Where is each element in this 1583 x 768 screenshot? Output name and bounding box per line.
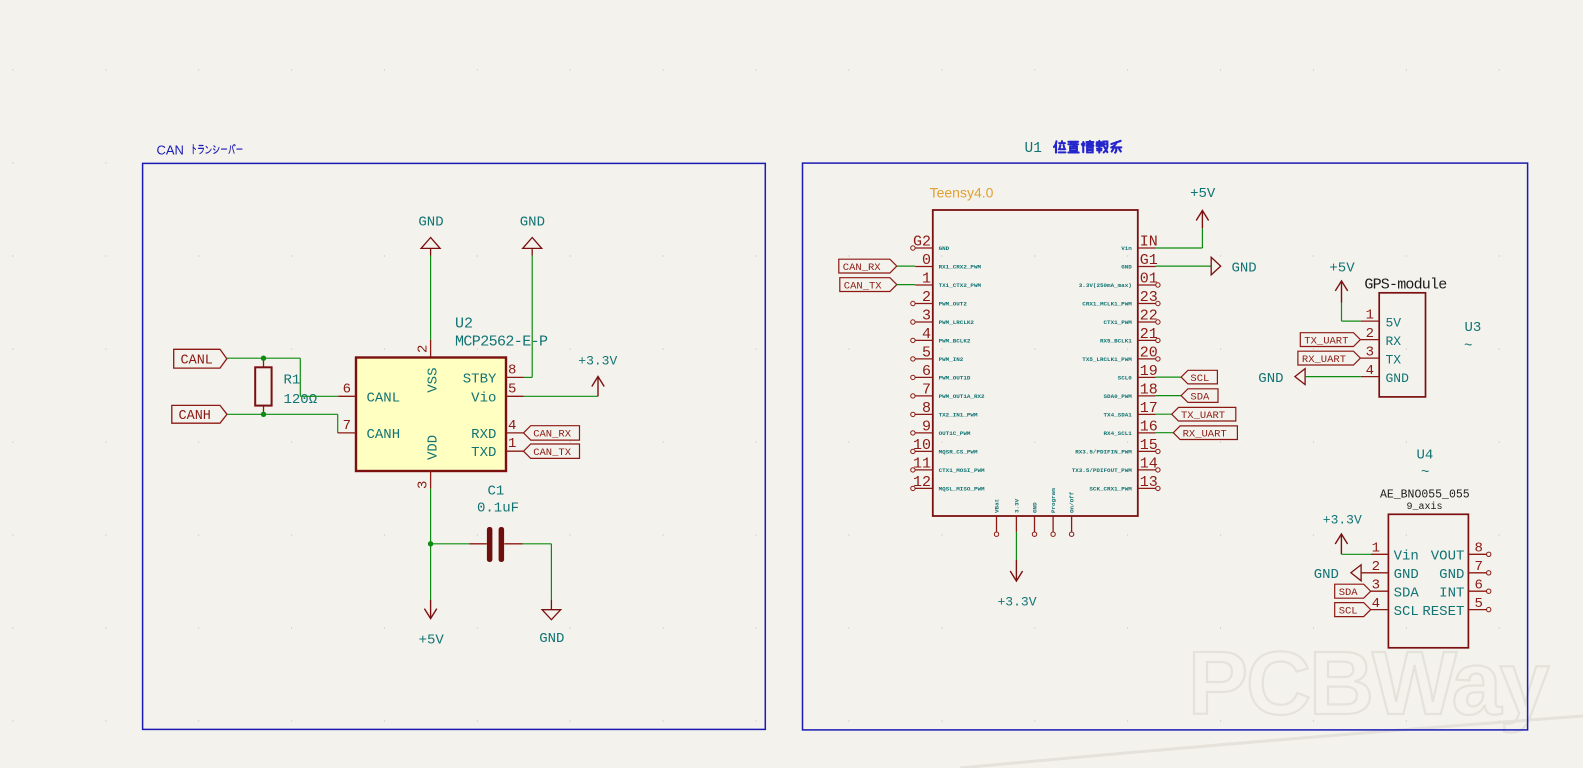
wire pin16 to RX_UART: [1156, 432, 1174, 434]
svg-text:SCL: SCL: [1394, 604, 1419, 620]
svg-text:TX_UART: TX_UART: [1181, 410, 1225, 422]
grid dots: [12, 70, 1499, 721]
sheet title CAN (katakana transceiver): [157, 143, 243, 158]
svg-text:7: 7: [343, 418, 351, 434]
svg-text:6: 6: [1475, 578, 1483, 594]
svg-text:TXD: TXD: [471, 445, 496, 461]
svg-text:TX3.5/PDIFOUT_PWM: TX3.5/PDIFOUT_PWM: [1072, 467, 1133, 474]
U1 left pin 10 MQSR_CS_PWM: [911, 437, 978, 456]
svg-text:Vin: Vin: [1121, 245, 1132, 252]
svg-text:15: 15: [1140, 437, 1158, 454]
U1 right pin 01 3.3V(250mA_max): [1079, 270, 1160, 289]
svg-text:U2: U2: [455, 316, 473, 333]
svg-text:SCL: SCL: [1339, 605, 1358, 617]
svg-text:3: 3: [1372, 578, 1380, 594]
U1 left pin 2 PWM_OUT2: [911, 289, 968, 308]
svg-text:SCL0: SCL0: [1118, 375, 1133, 382]
power +5V symbol (down arrow): [419, 600, 445, 648]
svg-text:+3.3V: +3.3V: [578, 353, 617, 368]
svg-text:TX4_SDA1: TX4_SDA1: [1104, 412, 1133, 419]
svg-text:18: 18: [1140, 381, 1158, 398]
svg-text:TX_UART: TX_UART: [1304, 335, 1348, 347]
svg-text:8: 8: [1475, 541, 1483, 557]
svg-text:CANL: CANL: [181, 354, 213, 369]
svg-text:CAN: CAN: [157, 143, 184, 158]
svg-text:STBY: STBY: [463, 372, 497, 388]
svg-text:On/Off: On/Off: [1069, 491, 1076, 513]
U1 left pin 4 PWM_BCLK2: [911, 326, 971, 345]
wire STBY to GND2: [524, 256, 533, 378]
U1 left pin 11 CTX1_MOSI_PWM: [911, 455, 985, 474]
svg-text:CANH: CANH: [179, 409, 211, 424]
svg-text:CRX1_MCLK1_PWM: CRX1_MCLK1_PWM: [1082, 301, 1132, 308]
svg-text:GND: GND: [1032, 502, 1039, 513]
svg-text:Program: Program: [1050, 488, 1057, 513]
U4 pin names: [1394, 549, 1465, 620]
svg-text:CTX1_MOSI_PWM: CTX1_MOSI_PWM: [939, 467, 985, 474]
svg-text:11: 11: [913, 455, 931, 472]
svg-text:2: 2: [1366, 326, 1374, 342]
resistor R1 120ohm: [255, 358, 317, 414]
svg-text:SDA: SDA: [1394, 585, 1420, 601]
pin 1 TXD stub: [506, 450, 524, 452]
svg-text:6: 6: [922, 363, 931, 380]
svg-text:AE_BNO055_055: AE_BNO055_055: [1380, 489, 1470, 502]
svg-text:1: 1: [1366, 307, 1374, 323]
svg-text:+3.3V: +3.3V: [1323, 512, 1362, 527]
svg-text:SDA0_PWM: SDA0_PWM: [1104, 393, 1133, 400]
svg-text:2: 2: [1372, 559, 1380, 575]
svg-text:7: 7: [1475, 559, 1483, 575]
U1 bottom pin GND: [1032, 502, 1039, 536]
junction VDD node: [428, 541, 433, 546]
svg-text:PWM_OUT1A_RX2: PWM_OUT1A_RX2: [939, 393, 985, 400]
capacitor C1 0.1uF: [469, 484, 522, 563]
global label CANL: [174, 349, 227, 368]
svg-text:+5V: +5V: [419, 632, 445, 648]
svg-text:Vin: Vin: [1394, 549, 1419, 565]
svg-text:RX4_SCL1: RX4_SCL1: [1104, 430, 1133, 437]
svg-text:GND: GND: [1314, 567, 1339, 583]
svg-text:MCP2562-E-P: MCP2562-E-P: [455, 334, 548, 351]
global label SCL (U4): [1335, 603, 1371, 618]
svg-text:VBat: VBat: [994, 499, 1001, 513]
U1 right pin 15 RX3.5/PDIFIN_PWM: [1075, 437, 1160, 456]
svg-text:3: 3: [922, 307, 931, 324]
svg-text:10: 10: [913, 437, 931, 454]
svg-text:1: 1: [508, 436, 516, 452]
junction CANL-R1: [261, 356, 266, 361]
U1 right pin 18 SDA0_PWM: [1104, 381, 1158, 400]
power GND symbol left arrow (GPS pin4): [1258, 369, 1305, 388]
wire pin17 to TX_UART: [1156, 413, 1172, 415]
svg-text:GND: GND: [520, 214, 545, 230]
svg-text:CANL: CANL: [367, 390, 401, 406]
wire VDD down: [430, 489, 432, 544]
svg-text:GND: GND: [1394, 567, 1419, 583]
power GND3 symbol (down): [539, 600, 564, 647]
sheet box CAN transceiver: [143, 163, 766, 729]
U1 bottom pin VBat: [994, 499, 1001, 537]
svg-text:RX5_BCLK1: RX5_BCLK1: [1100, 338, 1132, 345]
svg-text:G1: G1: [1140, 252, 1158, 269]
U4 right pin 7: [1468, 559, 1491, 575]
svg-text:VOUT: VOUT: [1431, 549, 1465, 565]
IC U2 MCP2562-E-P body: [356, 358, 506, 472]
svg-text:~: ~: [1464, 339, 1472, 355]
svg-text:13: 13: [1140, 474, 1158, 491]
svg-text:GND: GND: [418, 214, 443, 230]
wire VSS to GND1: [430, 256, 432, 340]
junction CANH-R1: [261, 412, 266, 417]
power +3.3V symbol (left box): [578, 353, 617, 396]
svg-text:22: 22: [1140, 307, 1158, 324]
U4 pin 1 wire from +3.3V: [1341, 541, 1388, 557]
U1 left pin 5 PWM_IN2: [911, 344, 964, 363]
svg-text:2: 2: [416, 345, 432, 353]
svg-text:PWM_OUT1D: PWM_OUT1D: [939, 375, 971, 382]
svg-text:Teensy4.0: Teensy4.0: [930, 184, 994, 200]
wire CANH to pin7: [227, 414, 338, 433]
U1 right pin 20 TX5_LRCLK1_PWM: [1082, 344, 1160, 363]
U1 left pin 8 TX2_IN1_PWM: [911, 400, 978, 419]
U4 right pin 6: [1468, 578, 1491, 594]
power +5V symbol (GPS): [1329, 261, 1355, 303]
U1 left pin 12 MQSL_MISO_PWM: [911, 474, 985, 493]
svg-text:RESET: RESET: [1422, 604, 1464, 620]
pin 8 STBY stub: [506, 376, 524, 378]
svg-text:23: 23: [1140, 289, 1158, 306]
U1 right pin 16 RX4_SCL1: [1104, 418, 1158, 437]
svg-text:PCBWay: PCBWay: [1188, 634, 1550, 734]
power +3.3V symbol (U4): [1323, 512, 1362, 554]
svg-text:4: 4: [1366, 363, 1374, 379]
svg-text:GND: GND: [1232, 260, 1257, 276]
power GND symbol left arrow (U4 pin2): [1314, 565, 1361, 583]
global label RX_UART (Teensy): [1173, 426, 1237, 441]
svg-text:8: 8: [922, 400, 931, 417]
U1 right pin 23 CRX1_MCLK1_PWM: [1082, 289, 1160, 308]
svg-text:PWM_OUT2: PWM_OUT2: [939, 301, 968, 308]
svg-text:3: 3: [416, 481, 432, 489]
IC U3 GPS-module body: [1379, 293, 1425, 397]
global label TX_UART (GPS): [1300, 333, 1360, 348]
svg-text:RX_UART: RX_UART: [1183, 428, 1227, 440]
svg-text:9: 9: [922, 418, 931, 435]
U3 pin 1 5V: [1361, 307, 1402, 330]
svg-text:TX2_IN1_PWM: TX2_IN1_PWM: [939, 412, 978, 419]
sheet title U1 (kanji location info system): [1025, 141, 1122, 157]
svg-text:5: 5: [922, 344, 931, 361]
svg-text:GND: GND: [1386, 371, 1410, 386]
global label RX_UART (GPS): [1298, 351, 1361, 366]
svg-text:SDA: SDA: [1190, 391, 1210, 403]
U1 bottom pin On/Off: [1069, 491, 1076, 536]
svg-text:5: 5: [508, 381, 516, 397]
svg-text:20: 20: [1140, 344, 1158, 361]
svg-text:OUT1C_PWM: OUT1C_PWM: [939, 430, 971, 437]
power GND symbol right arrow (Teensy G1): [1211, 257, 1257, 276]
wire GND to GPS pin4: [1305, 376, 1361, 378]
wire CAN_TX to pin 1: [897, 284, 915, 286]
svg-text:PWM_BCLK2: PWM_BCLK2: [939, 338, 971, 345]
U3 pin 4 GND: [1361, 363, 1409, 386]
svg-text:GND: GND: [1439, 567, 1464, 583]
IC U4 body: [1388, 514, 1468, 648]
svg-text:19: 19: [1140, 363, 1158, 380]
global label SDA (U4): [1335, 584, 1371, 599]
sheet box U1 location info: [803, 163, 1528, 730]
IC U4 AE_BNO055_055 value: [1380, 489, 1470, 513]
U2 pin names: [367, 368, 497, 462]
U4 reference: [1417, 448, 1434, 482]
svg-text:G2: G2: [913, 233, 931, 250]
svg-text:PWM_LRCLK2: PWM_LRCLK2: [939, 319, 975, 326]
svg-text:3: 3: [1366, 344, 1374, 360]
U2 reference and value: [455, 316, 548, 351]
pin 7 stub: [338, 432, 356, 434]
wire CANL to pin6: [227, 358, 338, 396]
svg-text:CAN_RX: CAN_RX: [533, 429, 572, 441]
svg-text:GND: GND: [539, 631, 564, 647]
global label CAN_RX (Teensy): [839, 259, 897, 274]
svg-text:PWM_IN2: PWM_IN2: [939, 356, 964, 363]
U1 bottom pin Program: [1050, 488, 1057, 537]
svg-text:U1: U1: [1025, 141, 1042, 157]
U4 pin 4 stub: [1371, 596, 1389, 612]
svg-text:R1: R1: [284, 372, 301, 388]
svg-text:2: 2: [922, 289, 931, 306]
U1 right pin 22 CTX1_PWM: [1104, 307, 1161, 326]
svg-text:MQSL_MISO_PWM: MQSL_MISO_PWM: [939, 486, 985, 493]
wire pin19 to SCL: [1156, 376, 1182, 378]
U1 left pin 3 PWM_LRCLK2: [911, 307, 975, 326]
U4 pin 2 stub: [1361, 559, 1388, 575]
svg-text:GND: GND: [1258, 371, 1283, 387]
svg-text:U4: U4: [1417, 448, 1434, 464]
U1 right pin G1 GND: [1121, 252, 1158, 271]
global label SCL (Teensy): [1181, 370, 1217, 385]
U3 reference: [1464, 320, 1481, 355]
svg-text:+5V: +5V: [1329, 261, 1355, 277]
U1 bottom pin 3.3V: [1014, 498, 1021, 532]
power +5V symbol (Teensy): [1190, 186, 1216, 228]
svg-text:VDD: VDD: [425, 435, 441, 460]
U1 right pin 14 TX3.5/PDIFOUT_PWM: [1072, 455, 1160, 474]
svg-text:4: 4: [1372, 596, 1380, 612]
wire pin18 to SDA: [1156, 395, 1182, 397]
svg-text:14: 14: [1140, 455, 1158, 472]
svg-text:INT: INT: [1439, 585, 1464, 601]
watermark PCBWay: [960, 634, 1583, 768]
svg-text:Vio: Vio: [471, 390, 496, 406]
U1 left pin 0 RX1_CRX2_PWM: [915, 252, 981, 271]
svg-text:CAN_TX: CAN_TX: [844, 280, 883, 292]
svg-text:6: 6: [343, 381, 351, 397]
power GND1 symbol: [418, 214, 443, 255]
svg-text:4: 4: [922, 326, 931, 343]
svg-text:U3: U3: [1465, 320, 1482, 336]
svg-text:RX: RX: [1386, 334, 1402, 349]
svg-text:5V: 5V: [1386, 315, 1402, 330]
U1 left pin 6 PWM_OUT1D: [911, 363, 971, 382]
svg-text:RX1_CRX2_PWM: RX1_CRX2_PWM: [939, 264, 982, 271]
U1 right pin 19 SCL0: [1118, 363, 1158, 382]
global label SDA (Teensy): [1181, 389, 1218, 404]
svg-text:VSS: VSS: [425, 368, 441, 393]
global label TX_UART (Teensy): [1172, 407, 1236, 422]
U4 right pin 8: [1468, 541, 1491, 557]
pin 3 VDD stub: [430, 471, 432, 489]
svg-text:GND: GND: [1121, 264, 1132, 271]
pin 6 stub: [338, 395, 356, 397]
svg-text:SCL: SCL: [1190, 373, 1209, 385]
wire junction to +5V: [430, 544, 432, 600]
svg-text:3.3V: 3.3V: [1014, 498, 1021, 513]
svg-text:MQSR_CS_PWM: MQSR_CS_PWM: [939, 449, 978, 456]
svg-text:C1: C1: [488, 484, 505, 500]
U3 pin 2 RX: [1361, 326, 1402, 349]
svg-text:TX1_CTX2_PWM: TX1_CTX2_PWM: [939, 282, 982, 289]
U1 left pin 7 PWM_OUT1A_RX2: [911, 381, 985, 400]
svg-text:4: 4: [508, 418, 516, 434]
U1 left pin 1 TX1_CTX2_PWM: [915, 270, 981, 289]
svg-text:CANH: CANH: [367, 427, 401, 443]
U4 right pin 5: [1468, 596, 1491, 612]
svg-text:+5V: +5V: [1190, 186, 1216, 202]
svg-text:SDA: SDA: [1339, 587, 1359, 599]
wire G1 to GND: [1156, 265, 1212, 267]
svg-text:CTX1_PWM: CTX1_PWM: [1104, 319, 1133, 326]
global label CAN_TX (left box): [524, 444, 580, 459]
svg-text:1: 1: [922, 270, 931, 287]
svg-text:9_axis: 9_axis: [1406, 501, 1442, 513]
svg-text:CAN_RX: CAN_RX: [843, 262, 882, 274]
U1 right pin 13 SCK_CRX1_PWM: [1089, 474, 1160, 493]
svg-text:1: 1: [1372, 541, 1380, 557]
wire CAN_RX to pin 0: [897, 265, 915, 267]
U1 right pin 21 RX5_BCLK1: [1100, 326, 1160, 345]
svg-text:16: 16: [1140, 418, 1158, 435]
IC U1 Teensy4.0 body: [933, 210, 1138, 516]
U4 pin 3 stub: [1371, 578, 1389, 594]
svg-text:SCK_CRX1_PWM: SCK_CRX1_PWM: [1089, 486, 1132, 493]
pin 5 Vio stub and wire to +3.3V: [506, 395, 598, 397]
svg-text:17: 17: [1140, 400, 1158, 417]
U1 right pin IN Vin: [1121, 233, 1158, 252]
pin 2 VSS stub: [416, 340, 432, 358]
svg-text:TX5_LRCLK1_PWM: TX5_LRCLK1_PWM: [1082, 356, 1132, 363]
pin 4 RXD stub: [506, 432, 524, 434]
U1 left pin G2 GND: [911, 233, 950, 252]
svg-text:01: 01: [1140, 270, 1158, 287]
svg-text:RXD: RXD: [471, 427, 496, 443]
svg-text:0.1uF: 0.1uF: [477, 501, 519, 517]
svg-text:12: 12: [913, 474, 931, 491]
svg-text:IN: IN: [1140, 233, 1158, 250]
wire C1 to GND3: [523, 544, 552, 600]
svg-text:RX_UART: RX_UART: [1302, 354, 1346, 366]
svg-text:+3.3V: +3.3V: [997, 595, 1036, 610]
power +3.3V symbol (below Teensy): [997, 560, 1036, 610]
svg-text:CAN_TX: CAN_TX: [533, 447, 572, 459]
svg-text:GND: GND: [939, 245, 950, 252]
global label CANH: [172, 405, 227, 424]
wire junction to C1: [431, 543, 470, 545]
svg-text:TX: TX: [1386, 352, 1402, 367]
svg-text:7: 7: [922, 381, 931, 398]
svg-text:GPS-module: GPS-module: [1364, 276, 1447, 293]
svg-text:RX3.5/PDIFIN_PWM: RX3.5/PDIFIN_PWM: [1075, 449, 1132, 456]
wire 3.3V bottom pin to +3.3V: [1015, 532, 1017, 560]
svg-text:5: 5: [1475, 596, 1483, 612]
global label CAN_RX (left box): [524, 426, 580, 441]
svg-text:0: 0: [922, 252, 931, 269]
svg-text:~: ~: [1421, 465, 1429, 481]
global label CAN_TX (Teensy): [840, 278, 897, 293]
U3 pin 3 TX: [1361, 344, 1402, 367]
wire Vin to +5V: [1156, 228, 1203, 248]
U1 right pin 17 TX4_SDA1: [1104, 400, 1158, 419]
U1 left pin 9 OUT1C_PWM: [911, 418, 971, 437]
U2 pin numbers: [343, 362, 517, 489]
svg-text:21: 21: [1140, 326, 1158, 343]
svg-text:3.3V(250mA_max): 3.3V(250mA_max): [1079, 282, 1132, 289]
power GND2 symbol: [520, 214, 545, 255]
wire +5V to GPS pin1: [1342, 303, 1361, 322]
svg-text:8: 8: [508, 362, 516, 378]
